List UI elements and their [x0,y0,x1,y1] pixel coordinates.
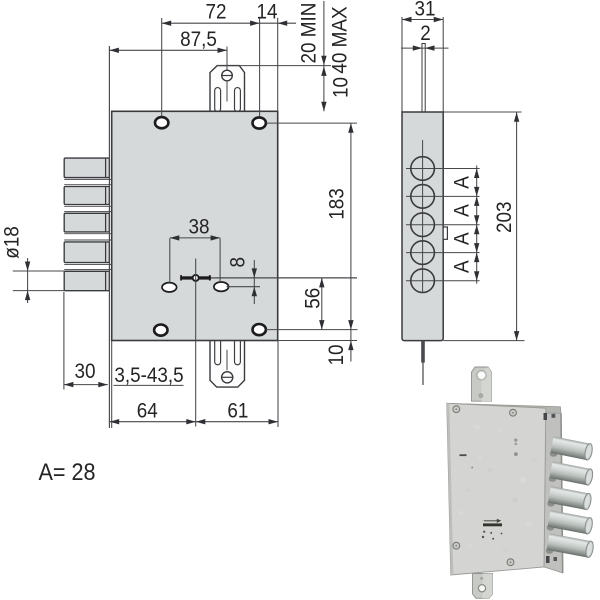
svg-text:31: 31 [414,0,435,21]
svg-text:14: 14 [256,1,277,24]
svg-text:A= 28: A= 28 [39,458,96,485]
svg-text:38: 38 [188,216,209,239]
svg-text:40 MAX: 40 MAX [329,6,352,73]
svg-text:30: 30 [74,360,95,383]
svg-text:A: A [451,232,474,245]
svg-text:56: 56 [302,288,325,309]
svg-text:10: 10 [330,77,353,98]
svg-text:A: A [451,176,474,189]
svg-text:203: 203 [493,202,516,234]
svg-text:2: 2 [420,22,431,45]
svg-text:8: 8 [227,257,250,268]
svg-text:ø18: ø18 [1,226,24,259]
svg-text:10: 10 [325,344,348,365]
svg-text:61: 61 [227,400,248,423]
svg-text:183: 183 [326,188,349,220]
svg-text:3,5-43,5: 3,5-43,5 [114,364,183,387]
svg-text:A: A [451,204,474,217]
svg-text:72: 72 [205,1,226,24]
svg-text:A: A [451,260,474,273]
svg-text:64: 64 [137,400,158,423]
svg-text:87,5: 87,5 [180,28,217,51]
svg-text:20 MIN: 20 MIN [298,3,321,64]
